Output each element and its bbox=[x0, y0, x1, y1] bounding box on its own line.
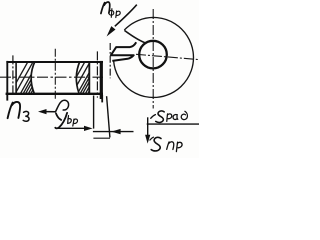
workpiece outline, left edge bbox=[6, 61, 8, 101]
shaped bore wall, left (curved profile) bbox=[31, 62, 35, 94]
cutter tooth zigzag profile bbox=[111, 42, 136, 61]
S_rad underline bbox=[147, 123, 199, 125]
label U_vr, letter U bbox=[55, 113, 67, 128]
S_pr down arrowhead bbox=[145, 135, 150, 144]
left face axis dash-dot line bbox=[12, 55, 14, 93]
label S of S_rad bbox=[156, 111, 165, 123]
label subscript "fr" of n_fr bbox=[109, 9, 120, 18]
workpiece horizontal centerline (dash-dot axis) bbox=[0, 76, 103, 78]
inner step line, right bbox=[88, 61, 90, 94]
shaped bore wall, right (curved profile) bbox=[76, 62, 79, 94]
section hatching, left band bbox=[7, 62, 54, 110]
workpiece rotation hook arrowhead bbox=[38, 109, 47, 114]
bottom connector line H3 bbox=[93, 137, 110, 139]
workpiece rotation hook arrow (loop tail) bbox=[46, 100, 69, 112]
right face axis dash-dot line bbox=[96, 51, 98, 97]
vertical connector line V3 (slanted) bbox=[107, 96, 110, 137]
cutter arbor bore circle bbox=[139, 41, 167, 69]
workpiece vertical centerline (dash-dot) bbox=[54, 49, 56, 100]
inner step line, left bbox=[15, 61, 17, 94]
label subscript "vr" of U_vr bbox=[68, 116, 78, 126]
cutter horizontal centerline (dash-dot) bbox=[136, 54, 199, 59]
label n_3 (workpiece speed), letter n bbox=[8, 102, 21, 118]
label subscript "pr" of S_pr bbox=[167, 142, 182, 152]
workpiece outline, bottom edge bbox=[6, 93, 103, 95]
workpiece outline, right edge (double thick) bbox=[100, 61, 103, 99]
label subscript 3 of n_3 bbox=[23, 111, 29, 121]
feed line with left arrow bbox=[93, 131, 134, 133]
workpiece outline, top edge bbox=[6, 61, 103, 63]
S_rad vertical line bbox=[147, 117, 149, 140]
S_rad lead-in tick bbox=[151, 115, 156, 119]
vertical connector line V1 below workpiece bbox=[93, 96, 95, 129]
cutter body circle (gap at tooth, upper left) bbox=[114, 17, 194, 97]
label subscript "rad" of S_rad bbox=[167, 111, 188, 121]
right edge stub below workpiece bbox=[101, 95, 103, 102]
tooth tip plane dash-dot line bbox=[109, 43, 111, 78]
cutter rotation arrow (curved tail) bbox=[115, 5, 137, 27]
U_vr arrowhead (points right) bbox=[84, 126, 93, 131]
S_pr lead-in tick bbox=[150, 137, 154, 140]
cutter rotation arrowhead bbox=[107, 26, 116, 36]
label n (cutter speed), letter n bbox=[101, 2, 110, 13]
feed arrowhead (points left) bbox=[111, 129, 120, 134]
section hatching, right band bbox=[64, 62, 111, 110]
label S of S_pr bbox=[151, 137, 161, 151]
cutter tooth back arc bbox=[124, 30, 146, 43]
cutter vertical centerline (dash-dot) bbox=[152, 9, 154, 109]
U_vr leader line bbox=[57, 127, 85, 129]
